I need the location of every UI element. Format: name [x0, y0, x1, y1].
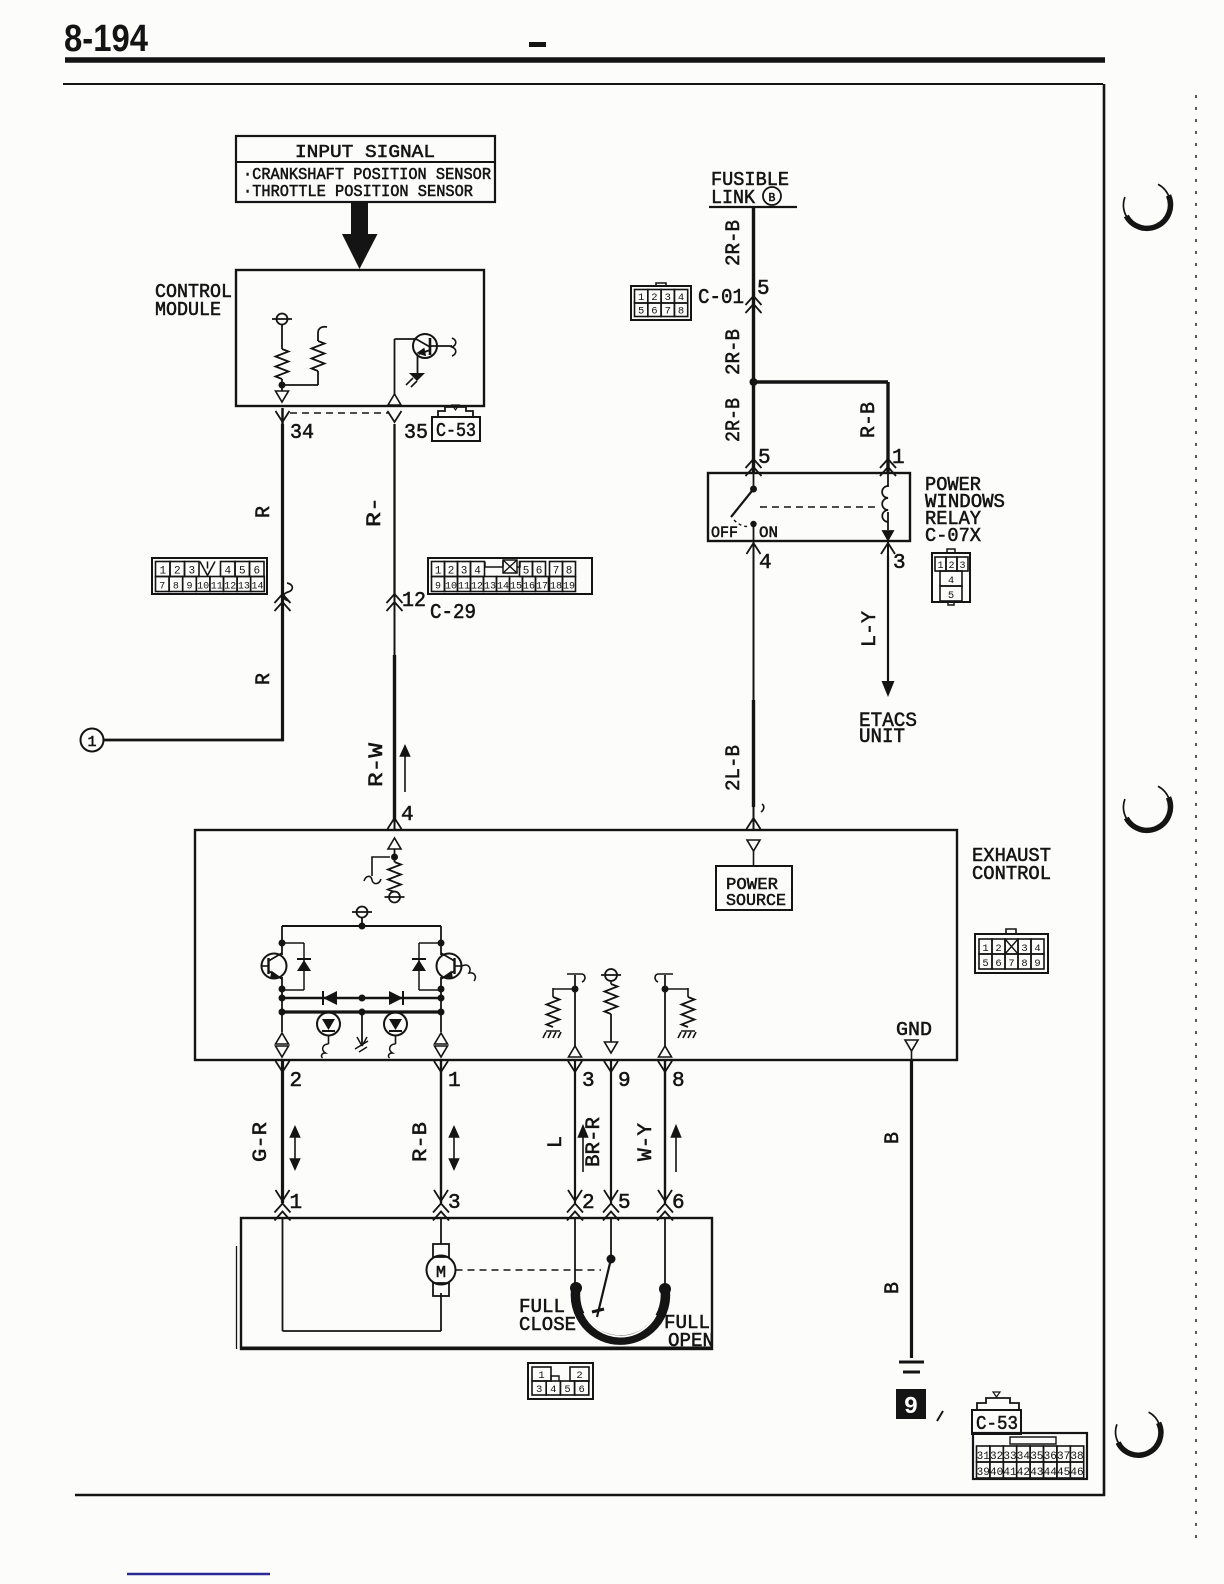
- fusible link underline: [709, 206, 797, 208]
- svg-text:34: 34: [1017, 1451, 1031, 1463]
- crossing into motor box: [603, 1204, 619, 1221]
- wiper contact tick: [592, 1309, 604, 1312]
- svg-text:INPUT SIGNAL: INPUT SIGNAL: [295, 143, 435, 163]
- switch throw dashed arc: [734, 520, 750, 526]
- svg-text:43: 43: [1030, 1467, 1043, 1479]
- pin 34 connector Y: [276, 411, 290, 422]
- wire R- from pin 35: [393, 424, 395, 596]
- right pin drop: [440, 998, 442, 1032]
- scan double edge: [236, 1246, 238, 1349]
- continuation tick: [761, 804, 764, 812]
- fusible link circled B: [763, 187, 781, 205]
- pin Y above motor box (label 2): [568, 1190, 582, 1201]
- connector C-53 tag (top): [438, 407, 473, 417]
- diode D3 on mid rail (points left): [323, 991, 337, 1005]
- header dash mark: [529, 42, 546, 47]
- svg-text:17: 17: [536, 582, 548, 593]
- svg-text:14: 14: [251, 582, 263, 593]
- svg-text:19: 19: [563, 582, 575, 593]
- svg-text:36: 36: [1044, 1451, 1057, 1463]
- svg-text:R-W: R-W: [366, 743, 389, 787]
- svg-text:C-07X: C-07X: [925, 525, 982, 547]
- wire 2L-B thick segment: [752, 700, 755, 807]
- wire: [281, 325, 283, 349]
- svg-text:6: 6: [579, 1384, 585, 1396]
- svg-text:9: 9: [1034, 958, 1040, 970]
- wire pin2 to FULL CLOSE contact: [574, 1218, 576, 1286]
- svg-text:33: 33: [1003, 1451, 1016, 1463]
- wire R-W (thick): [393, 655, 396, 820]
- svg-text:R-B: R-B: [858, 402, 881, 438]
- center ground arrow: [355, 1037, 368, 1052]
- switch upper contact: [750, 486, 757, 493]
- relay switch blade: [731, 489, 754, 517]
- svg-text:6: 6: [651, 306, 657, 318]
- transistor Q1 (left): [262, 954, 287, 979]
- junction leg 3: [572, 986, 579, 993]
- wire joining resistors: [282, 384, 318, 386]
- arrow to ETACS: [882, 681, 895, 697]
- H-bridge top rail: [282, 925, 441, 927]
- svg-text:13: 13: [238, 582, 250, 593]
- transistor emitter ground: [409, 373, 425, 381]
- svg-text:R-: R-: [364, 497, 387, 527]
- svg-text:38: 38: [1070, 1451, 1083, 1463]
- power node symbol in control module: [272, 314, 292, 325]
- binder hole crescent bottom: [1116, 1412, 1161, 1454]
- transistor in control module: [413, 334, 437, 358]
- svg-text:6: 6: [995, 958, 1001, 970]
- center ground stem: [361, 1012, 363, 1044]
- svg-text:10: 10: [445, 582, 457, 593]
- arrow up L: [579, 1126, 588, 1172]
- connector 6-pin below motor box: [528, 1363, 593, 1399]
- wire to switch: [753, 473, 755, 486]
- box CONTROL MODULE: [236, 270, 484, 406]
- junction leg 8: [662, 986, 669, 993]
- terminal triangle pin 4 inside: [388, 838, 401, 849]
- svg-text:1: 1: [638, 292, 644, 304]
- left leg upper: [281, 926, 283, 955]
- svg-text:4: 4: [550, 1384, 556, 1396]
- bottom wire to motor: [283, 1330, 442, 1332]
- switch ON contact: [750, 521, 756, 527]
- connector C-01: [631, 286, 691, 320]
- svg-text:13: 13: [484, 582, 496, 593]
- crossing into motor box: [275, 1204, 291, 1221]
- svg-text:C-53: C-53: [976, 1413, 1018, 1435]
- ground leg 8: [678, 1031, 696, 1038]
- pin 4 connector Y into exhaust box: [388, 818, 402, 829]
- svg-text:6: 6: [672, 1192, 685, 1215]
- SCR S1 (left): [317, 1013, 340, 1036]
- dashed connector line 34-35: [290, 412, 388, 414]
- wire pin3 to motor top: [440, 1218, 442, 1244]
- right leg lower: [440, 977, 442, 999]
- terminal triangle (down) right pin: [435, 1046, 448, 1057]
- junction to relay branch: [750, 378, 758, 386]
- connector C-07X: [932, 553, 970, 602]
- INPUT SIGNAL box: [236, 136, 495, 202]
- svg-text:34: 34: [290, 422, 314, 445]
- resistor leg 9: [605, 984, 618, 1014]
- svg-text:5: 5: [982, 958, 988, 970]
- svg-text:2: 2: [582, 1192, 595, 1215]
- header thick rule: [65, 57, 1105, 63]
- svg-text:39: 39: [977, 1467, 990, 1479]
- wire L-Y: [887, 556, 889, 682]
- svg-text:8: 8: [173, 582, 179, 593]
- transistor base line to hook: [430, 345, 452, 347]
- svg-text:5: 5: [564, 1384, 570, 1396]
- wire at x=665: [664, 1060, 666, 1203]
- svg-text:3: 3: [582, 1070, 595, 1093]
- svg-text:14: 14: [497, 582, 509, 593]
- page edge dashed line: [1195, 95, 1197, 1545]
- arrow up W-Y: [672, 1126, 681, 1172]
- H-bridge lower rail: [282, 1010, 441, 1013]
- svg-text:16: 16: [523, 582, 535, 593]
- junction: [279, 382, 286, 389]
- wire pin1 inside: [282, 1218, 284, 1331]
- power node for H-bridge: [352, 907, 372, 918]
- junction pin 4: [391, 854, 398, 861]
- wire: [281, 379, 283, 391]
- svg-text:SOURCE: SOURCE: [726, 892, 786, 911]
- pin Y above motor box (label 3): [434, 1190, 448, 1201]
- harness crossing at C-01: [746, 296, 762, 313]
- harness crossing on wire 12: [387, 594, 403, 611]
- svg-text:C-29: C-29: [430, 602, 476, 625]
- blue footer line: [127, 1573, 270, 1576]
- resistor in control module (second): [312, 341, 325, 371]
- svg-text:4: 4: [678, 292, 684, 304]
- sensor leg 8 hook: [655, 974, 673, 982]
- svg-text:B: B: [882, 1132, 905, 1144]
- terminal triangle leg 8: [659, 1046, 672, 1057]
- svg-text:9: 9: [435, 582, 441, 593]
- continuation hook right of Q2: [462, 965, 475, 981]
- wire at x=611: [610, 1060, 612, 1203]
- svg-text:37: 37: [1057, 1451, 1070, 1463]
- wire pin5 to wiper pivot: [610, 1218, 612, 1259]
- terminal triangle leg 9: [605, 1042, 618, 1053]
- box exhaust valve motor: [241, 1218, 712, 1349]
- SCR S2 (right): [384, 1013, 407, 1036]
- pin 35 connector Y: [388, 411, 402, 422]
- svg-text:1: 1: [538, 1370, 544, 1382]
- wire 2R-B down to relay: [752, 383, 755, 474]
- svg-text:42: 42: [1017, 1467, 1030, 1479]
- svg-text:R: R: [253, 506, 276, 518]
- svg-text:5: 5: [757, 278, 770, 301]
- power node leg 9: [601, 969, 621, 981]
- position switch arc: [575, 1288, 665, 1340]
- box EXHAUST CONTROL: [195, 830, 957, 1060]
- node 1 circle: [81, 729, 104, 752]
- svg-text:5: 5: [638, 306, 644, 318]
- junction top rail: [359, 923, 366, 930]
- power node on pin 4 chain: [385, 892, 405, 903]
- wire at x=441: [440, 1060, 442, 1203]
- ground leg 3: [543, 1031, 561, 1038]
- pin Y below exhaust (label 9): [604, 1061, 618, 1072]
- motor box bottom thick: [241, 1347, 712, 1350]
- diode D4 on mid rail (points right): [389, 991, 403, 1005]
- wire at x=282.5: [281, 1060, 284, 1203]
- harness crossing on wire R: [275, 594, 291, 611]
- connector C-53 tag (bottom): [977, 1398, 1019, 1410]
- wire 2R-B from fusible link: [752, 207, 755, 383]
- pin Y below exhaust (label 3): [568, 1061, 582, 1072]
- wiper arm: [597, 1259, 611, 1317]
- ground reference 9 (black square): [896, 1389, 926, 1419]
- INPUT SIGNAL title divider: [236, 161, 495, 163]
- wire from node 1 to pin 34 wire: [104, 739, 285, 742]
- ground wire B: [910, 1060, 913, 1358]
- stray tick: [937, 1411, 943, 1421]
- transistor Q2 (right): [437, 954, 462, 979]
- svg-text:2: 2: [290, 1070, 303, 1093]
- resistor on pin 4 chain: [388, 862, 401, 892]
- wire below C-29: [394, 596, 396, 655]
- terminal triangle GND: [905, 1040, 918, 1051]
- branch continuation hook left: [372, 857, 390, 876]
- svg-text:B: B: [769, 192, 776, 205]
- connector C-53 pin grid: [973, 1433, 1087, 1479]
- svg-text:18: 18: [550, 582, 562, 593]
- svg-text:GND: GND: [896, 1019, 932, 1041]
- right leg upper: [440, 926, 442, 955]
- svg-text:9: 9: [186, 582, 192, 593]
- svg-text:3: 3: [536, 1384, 542, 1396]
- terminal triangle above pin 34: [276, 391, 289, 402]
- svg-text:2: 2: [576, 1370, 582, 1382]
- connector 9-pin (exhaust control): [975, 934, 1048, 973]
- H-bridge mid rail: [282, 997, 441, 999]
- wire to pin 35: [394, 339, 396, 404]
- svg-text:MODULE: MODULE: [155, 299, 221, 321]
- direction arrow up beside R-W: [401, 746, 410, 792]
- svg-text:15: 15: [510, 582, 522, 593]
- svg-text:8: 8: [1021, 958, 1027, 970]
- svg-text:2R-B: 2R-B: [723, 398, 746, 442]
- wire pin6 to FULL OPEN contact: [664, 1218, 666, 1288]
- crossing into motor box: [433, 1204, 449, 1221]
- wire to motor bottom: [440, 1293, 442, 1331]
- svg-text:M: M: [436, 1264, 446, 1283]
- svg-text:12: 12: [471, 582, 483, 593]
- svg-text:W-Y: W-Y: [635, 1123, 658, 1161]
- pin 3 Y below relay: [881, 543, 895, 554]
- relay coil: [882, 486, 888, 522]
- svg-text:CONTROL: CONTROL: [972, 863, 1051, 885]
- sensor leg 3 hook: [567, 974, 585, 982]
- connector C-29 left half: [152, 558, 267, 594]
- svg-text:L: L: [545, 1136, 568, 1148]
- svg-text:2L-B: 2L-B: [723, 745, 746, 791]
- svg-text:OPEN: OPEN: [668, 1330, 714, 1352]
- pin 4 Y below relay: [747, 543, 761, 554]
- svg-text:7: 7: [159, 582, 165, 593]
- svg-text:7: 7: [665, 306, 671, 318]
- crossing into motor box: [657, 1204, 673, 1221]
- svg-text:41: 41: [1003, 1467, 1017, 1479]
- wire leg 8: [664, 975, 666, 1046]
- svg-text:12: 12: [402, 590, 426, 613]
- svg-text:32: 32: [990, 1451, 1003, 1463]
- motor M: [433, 1244, 449, 1257]
- box POWER SOURCE: [716, 866, 792, 910]
- header thin rule: [63, 83, 1103, 85]
- svg-text:L-Y: L-Y: [859, 611, 882, 647]
- svg-text:35: 35: [404, 422, 428, 445]
- binder hole crescent top: [1123, 184, 1170, 228]
- svg-text:R-B: R-B: [410, 1122, 433, 1162]
- svg-text:4: 4: [401, 804, 414, 827]
- input signal arrow: [342, 202, 378, 269]
- svg-text:LINK: LINK: [711, 187, 756, 209]
- wire leg 3: [574, 975, 576, 1046]
- terminal triangle power source: [747, 840, 760, 851]
- terminal triangle (down) left pin: [276, 1046, 289, 1057]
- dashed link motor to position switch: [456, 1269, 602, 1271]
- svg-text:4: 4: [759, 552, 772, 575]
- svg-text:ON: ON: [759, 524, 778, 542]
- svg-text:5: 5: [948, 590, 954, 602]
- svg-text:G-R: G-R: [250, 1122, 273, 1162]
- svg-text:44: 44: [1044, 1467, 1058, 1479]
- resistor in control module (second) pull-up hook: [318, 327, 327, 341]
- pin Y below exhaust (label 2): [276, 1061, 290, 1072]
- relay dashed link: [760, 506, 878, 508]
- svg-text:2: 2: [651, 292, 657, 304]
- connector C-29 right half: [428, 558, 592, 594]
- svg-text:35: 35: [1030, 1451, 1043, 1463]
- pin Y above motor box (label 1): [276, 1190, 290, 1201]
- svg-text:10: 10: [197, 582, 209, 593]
- box POWER WINDOWS RELAY: [708, 473, 910, 541]
- svg-text:UNIT: UNIT: [859, 726, 905, 749]
- wire at x=575: [574, 1060, 576, 1203]
- svg-text:46: 46: [1070, 1467, 1083, 1479]
- svg-text:8: 8: [672, 1070, 685, 1093]
- branch wire to R-B: [754, 380, 889, 384]
- pin Y below exhaust (label 1): [434, 1061, 448, 1072]
- resistor in control module (left): [276, 349, 289, 379]
- pin Y above motor box (label 6): [658, 1190, 672, 1201]
- svg-text:1: 1: [290, 1192, 303, 1215]
- svg-text:CLOSE: CLOSE: [519, 1314, 576, 1336]
- junction right: [438, 986, 445, 993]
- svg-text:OFF: OFF: [711, 524, 738, 542]
- diode D2 (right clamp): [419, 942, 441, 944]
- wire leg 9: [610, 1014, 612, 1042]
- svg-text:C-53: C-53: [436, 420, 476, 442]
- junction right leg: [438, 940, 445, 947]
- ground symbol: [899, 1361, 924, 1364]
- svg-text:2R-B: 2R-B: [723, 329, 746, 375]
- terminal triangle leg 3: [569, 1046, 582, 1057]
- svg-text:2R-B: 2R-B: [723, 220, 746, 266]
- page right border: [1103, 84, 1106, 1496]
- svg-text:·THROTTLE POSITION SENSOR: ·THROTTLE POSITION SENSOR: [243, 182, 473, 201]
- svg-text:R: R: [253, 673, 276, 685]
- terminal triangle above pin 35: [388, 394, 401, 405]
- terminal triangle (up) right pin: [435, 1033, 448, 1044]
- double arrow G-R: [291, 1127, 300, 1169]
- page bottom border: [75, 1494, 1105, 1497]
- resistor leg 8: [682, 997, 695, 1027]
- pin 1 crossing into relay: [880, 459, 896, 476]
- left pin drop: [281, 998, 283, 1032]
- pin Y into exhaust box (power source): [747, 818, 761, 829]
- svg-text:9: 9: [618, 1070, 631, 1093]
- terminal triangle (up) left pin: [276, 1033, 289, 1044]
- svg-text:12: 12: [224, 582, 236, 593]
- svg-text:BR-R: BR-R: [583, 1117, 606, 1167]
- wire below relay pin 4: [753, 556, 755, 700]
- junction left leg: [279, 940, 286, 947]
- diode D1 (left clamp): [282, 942, 304, 944]
- svg-text:8: 8: [678, 306, 684, 318]
- svg-text:5: 5: [618, 1192, 631, 1215]
- junction left: [279, 986, 286, 993]
- pin 5 crossing into relay: [746, 459, 762, 476]
- svg-text:3: 3: [665, 292, 671, 304]
- svg-text:3: 3: [893, 552, 906, 575]
- svg-text:B: B: [882, 1282, 905, 1294]
- pin Y above motor box (label 5): [604, 1190, 618, 1201]
- splice squiggle: [284, 583, 293, 601]
- wiper pivot: [607, 1255, 616, 1264]
- svg-text:11: 11: [211, 582, 223, 593]
- left leg lower: [281, 977, 283, 999]
- svg-text:8-194: 8-194: [64, 18, 148, 60]
- svg-text:45: 45: [1057, 1467, 1070, 1479]
- wire: [317, 371, 319, 385]
- resistor leg 3: [547, 997, 560, 1027]
- continuation hook: [452, 338, 456, 356]
- crossing into motor box: [567, 1204, 583, 1221]
- svg-text:1: 1: [87, 734, 96, 751]
- double arrow R-B: [450, 1127, 459, 1169]
- wire R from pin 34: [281, 424, 284, 741]
- binder hole crescent middle: [1123, 786, 1170, 830]
- svg-text:40: 40: [990, 1467, 1003, 1479]
- svg-text:3: 3: [448, 1192, 461, 1215]
- svg-text:9: 9: [904, 1394, 918, 1421]
- svg-text:11: 11: [458, 582, 470, 593]
- svg-text:7: 7: [1008, 958, 1014, 970]
- pin Y below exhaust (label 8): [658, 1061, 672, 1072]
- svg-text:31: 31: [977, 1451, 991, 1463]
- wire R-B down to relay: [886, 382, 889, 474]
- svg-text:C-01: C-01: [698, 287, 744, 310]
- svg-text:1: 1: [448, 1070, 461, 1093]
